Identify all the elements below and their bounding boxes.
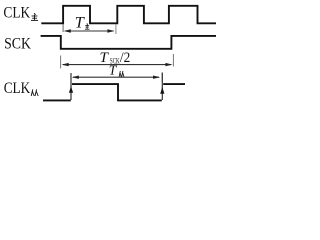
wire arrowed rising edge 2 [161,73,163,101]
主 subscript glyph [31,13,38,20]
wire T_slave dimension arrow [72,76,161,79]
wire arrowed rising edge 1 [70,73,72,100]
wire extension tick right of T_SCK/2 [172,54,174,67]
wire extension tick left of T_SCK/2 [60,56,62,69]
wire T_master dimension arrow [64,29,115,32]
node T_SCK/2 label [100,49,131,66]
svg-text:T: T [75,12,86,31]
wire extension tick left of T_slave [70,73,72,82]
wire extension tick right of T_slave [161,73,163,83]
svg-text:CLK: CLK [4,80,31,97]
主 subscript small [85,23,90,29]
wire CLK_slave waveform horizontals and fall [43,99,71,101]
wire extension line left of T_master [62,24,64,32]
svg-text:/2: /2 [120,49,130,66]
wire CLK_master waveform [41,6,216,24]
wire SCK waveform [41,36,216,49]
从 subscript glyph [31,89,38,96]
node T_slave label [109,63,124,78]
node CLK_master label [3,5,38,22]
从 subscript small [119,71,124,77]
svg-text:SCK: SCK [4,35,31,52]
wire extension line right of T_master [115,24,117,34]
wire T_SCK/2 dimension arrow [62,63,173,66]
node T_master label [75,12,90,31]
node CLK_slave label [4,80,39,97]
svg-text:CLK: CLK [3,5,30,22]
